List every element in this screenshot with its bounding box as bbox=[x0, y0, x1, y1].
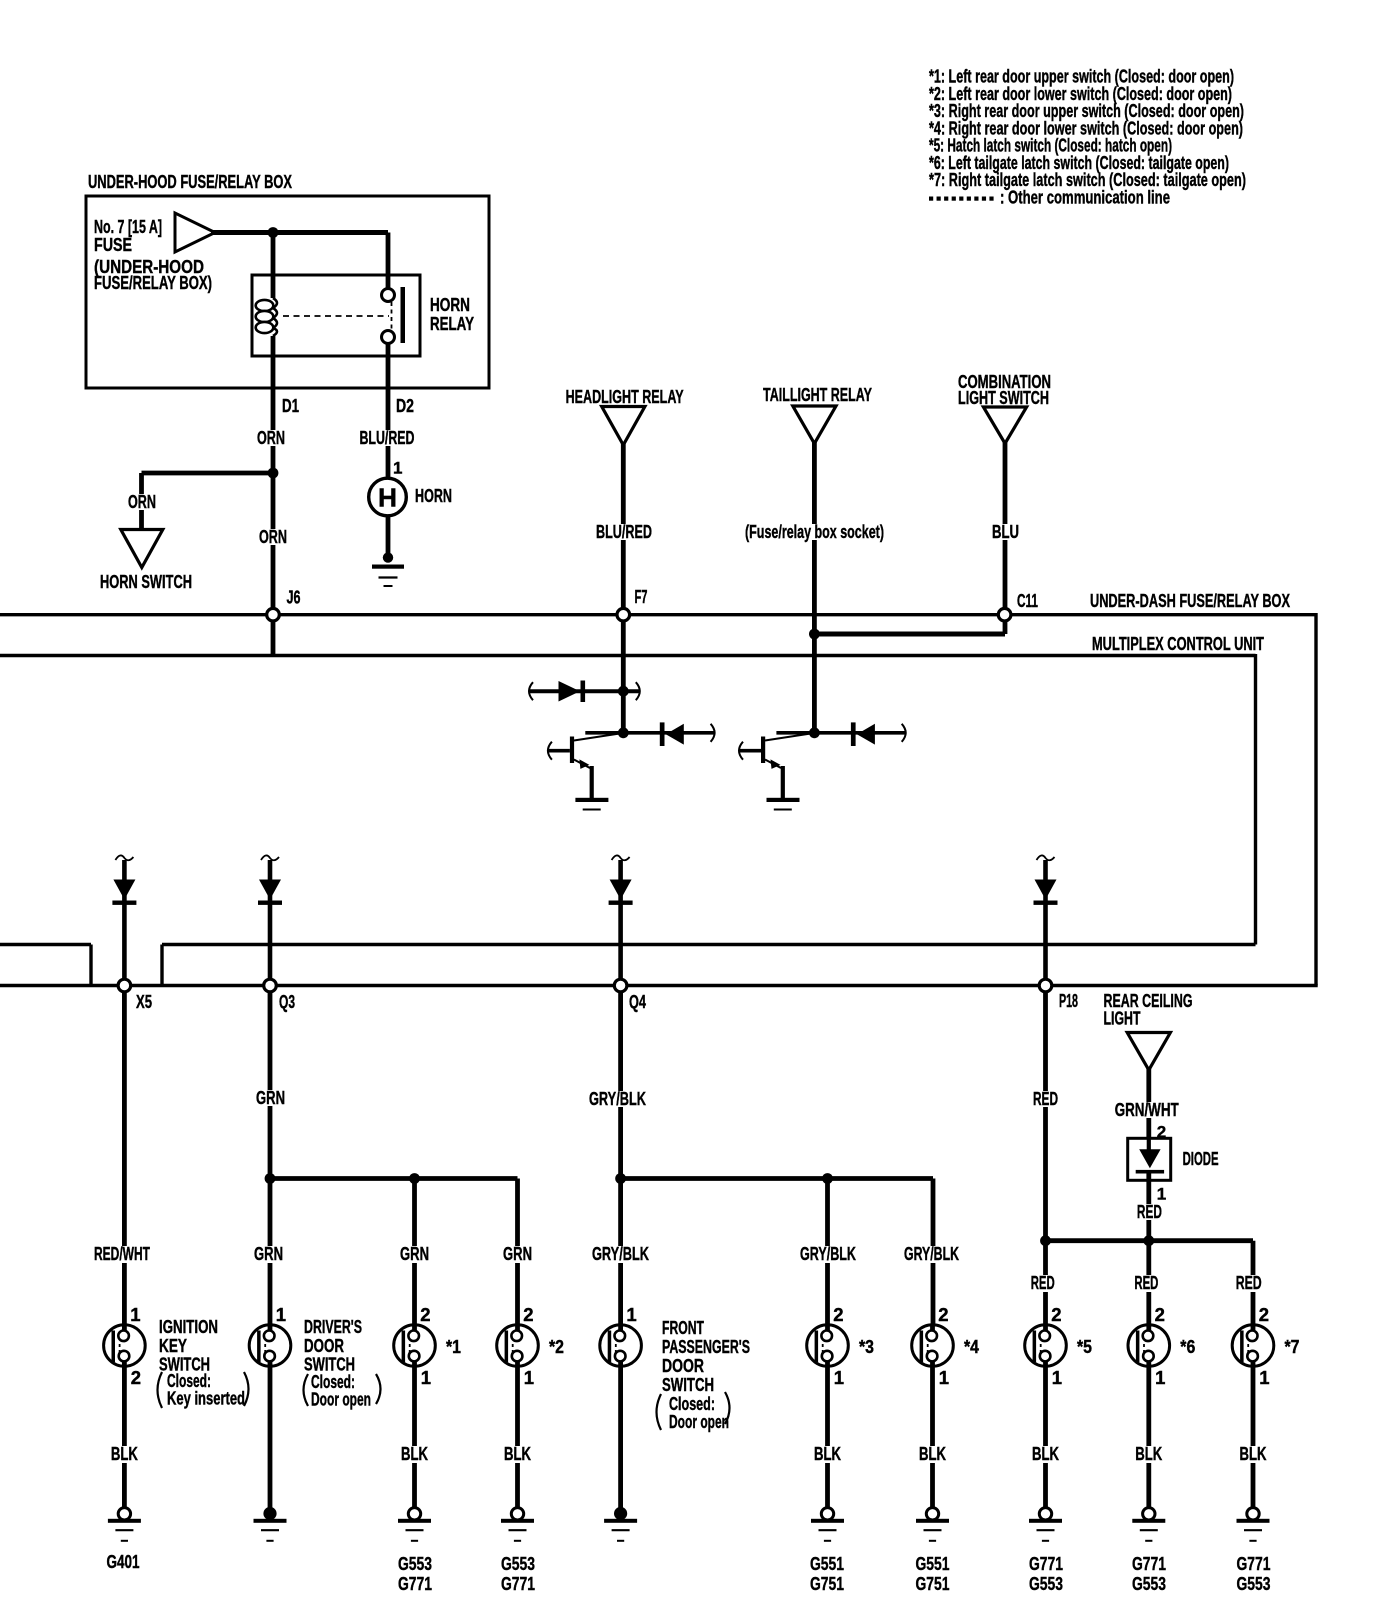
svg-text:GRY/BLK: GRY/BLK bbox=[800, 1243, 856, 1264]
svg-text:*4: *4 bbox=[964, 1336, 980, 1357]
svg-text:*7: *7 bbox=[1285, 1336, 1300, 1357]
svg-text:1: 1 bbox=[1052, 1367, 1062, 1388]
svg-text:LIGHT: LIGHT bbox=[1104, 1008, 1141, 1029]
svg-text:Q3: Q3 bbox=[279, 991, 295, 1012]
svg-text:P18: P18 bbox=[1059, 990, 1078, 1011]
svg-text:RED: RED bbox=[1033, 1088, 1058, 1109]
svg-text:HORN SWITCH: HORN SWITCH bbox=[100, 571, 192, 592]
svg-text:G771: G771 bbox=[501, 1573, 535, 1594]
svg-text:D1: D1 bbox=[282, 395, 299, 416]
svg-text:G771: G771 bbox=[1029, 1553, 1063, 1574]
svg-text:G551: G551 bbox=[916, 1553, 950, 1574]
svg-text:*2: *2 bbox=[549, 1336, 564, 1357]
svg-text:1: 1 bbox=[939, 1367, 949, 1388]
svg-text:HORN: HORN bbox=[415, 485, 452, 506]
svg-text:FUSE: FUSE bbox=[94, 234, 132, 255]
svg-text:ORN: ORN bbox=[257, 427, 285, 448]
svg-text:G401: G401 bbox=[107, 1551, 140, 1572]
svg-text:RED: RED bbox=[1134, 1272, 1158, 1293]
svg-text:MULTIPLEX CONTROL UNIT: MULTIPLEX CONTROL UNIT bbox=[1092, 633, 1264, 654]
svg-text:Q4: Q4 bbox=[629, 991, 646, 1012]
svg-text:RED: RED bbox=[1236, 1272, 1262, 1293]
svg-text:G553: G553 bbox=[1029, 1573, 1063, 1594]
svg-text:UNDER-HOOD FUSE/RELAY BOX: UNDER-HOOD FUSE/RELAY BOX bbox=[88, 171, 292, 192]
svg-text:RELAY: RELAY bbox=[430, 313, 474, 334]
svg-text:DIODE: DIODE bbox=[1183, 1148, 1219, 1169]
svg-text:2: 2 bbox=[523, 1304, 533, 1325]
svg-text:C11: C11 bbox=[1017, 590, 1038, 611]
svg-text:GRN: GRN bbox=[254, 1243, 283, 1264]
svg-text:FUSE/RELAY BOX): FUSE/RELAY BOX) bbox=[94, 272, 212, 293]
svg-text:BLU: BLU bbox=[992, 521, 1019, 542]
svg-text:Key inserted: Key inserted bbox=[167, 1388, 245, 1409]
svg-text:G751: G751 bbox=[916, 1573, 950, 1594]
svg-text:RED: RED bbox=[1031, 1272, 1055, 1293]
svg-text:Door open: Door open bbox=[669, 1411, 729, 1432]
svg-text:(Fuse/relay box socket): (Fuse/relay box socket) bbox=[745, 521, 884, 542]
svg-text:UNDER-DASH FUSE/RELAY BOX: UNDER-DASH FUSE/RELAY BOX bbox=[1090, 590, 1290, 611]
svg-text:1: 1 bbox=[393, 459, 402, 478]
svg-text:X5: X5 bbox=[136, 991, 152, 1012]
svg-text:BLK: BLK bbox=[814, 1443, 841, 1464]
svg-text:GRY/BLK: GRY/BLK bbox=[904, 1243, 959, 1264]
svg-text:G553: G553 bbox=[1132, 1573, 1166, 1594]
svg-text:G771: G771 bbox=[398, 1573, 432, 1594]
svg-text:1: 1 bbox=[626, 1304, 636, 1325]
svg-text:RED/WHT: RED/WHT bbox=[94, 1243, 150, 1264]
svg-text:FRONT: FRONT bbox=[662, 1317, 704, 1338]
svg-text:ORN: ORN bbox=[128, 491, 156, 512]
svg-text:ORN: ORN bbox=[259, 526, 287, 547]
svg-text:IGNITION: IGNITION bbox=[159, 1316, 218, 1337]
svg-text:GRY/BLK: GRY/BLK bbox=[589, 1088, 646, 1109]
svg-text:1: 1 bbox=[524, 1367, 534, 1388]
svg-text:*1: *1 bbox=[446, 1336, 461, 1357]
svg-text:BLK: BLK bbox=[401, 1443, 428, 1464]
svg-text:H: H bbox=[378, 483, 397, 513]
svg-text:GRN/WHT: GRN/WHT bbox=[1115, 1099, 1180, 1120]
svg-text:BLU/RED: BLU/RED bbox=[596, 521, 652, 542]
svg-text:G553: G553 bbox=[501, 1553, 535, 1574]
svg-text:GRN: GRN bbox=[400, 1243, 429, 1264]
svg-text:HEADLIGHT RELAY: HEADLIGHT RELAY bbox=[566, 386, 684, 407]
svg-text:DRIVER'S: DRIVER'S bbox=[304, 1316, 362, 1337]
svg-text:2: 2 bbox=[1157, 1123, 1166, 1142]
svg-text:2: 2 bbox=[1259, 1304, 1269, 1325]
svg-text:G771: G771 bbox=[1237, 1553, 1271, 1574]
svg-text:BLU/RED: BLU/RED bbox=[360, 427, 415, 448]
svg-text:*5: *5 bbox=[1077, 1336, 1092, 1357]
svg-text:J6: J6 bbox=[287, 587, 301, 608]
svg-text:2: 2 bbox=[1155, 1304, 1165, 1325]
svg-text:BLK: BLK bbox=[1240, 1443, 1267, 1464]
svg-text:TAILLIGHT RELAY: TAILLIGHT RELAY bbox=[763, 384, 872, 405]
svg-text:G751: G751 bbox=[810, 1573, 844, 1594]
svg-text:Door open: Door open bbox=[311, 1389, 371, 1410]
svg-text:BLK: BLK bbox=[1135, 1443, 1162, 1464]
svg-text:GRN: GRN bbox=[503, 1243, 532, 1264]
svg-text:LIGHT SWITCH: LIGHT SWITCH bbox=[958, 387, 1049, 408]
svg-text:*3: *3 bbox=[859, 1336, 874, 1357]
svg-text:2: 2 bbox=[420, 1304, 430, 1325]
svg-text:G551: G551 bbox=[810, 1553, 844, 1574]
svg-text:BLK: BLK bbox=[504, 1443, 531, 1464]
svg-text:BLK: BLK bbox=[1032, 1443, 1059, 1464]
svg-text:: Other communication line: : Other communication line bbox=[1000, 188, 1170, 208]
svg-text:F7: F7 bbox=[635, 586, 648, 607]
svg-text:PASSENGER'S: PASSENGER'S bbox=[662, 1336, 750, 1357]
svg-text:GRN: GRN bbox=[256, 1087, 285, 1108]
svg-text:2: 2 bbox=[1051, 1304, 1061, 1325]
svg-text:G553: G553 bbox=[398, 1553, 432, 1574]
svg-text:2: 2 bbox=[938, 1304, 948, 1325]
svg-text:G771: G771 bbox=[1132, 1553, 1166, 1574]
svg-text:BLK: BLK bbox=[111, 1443, 138, 1464]
svg-text:2: 2 bbox=[833, 1304, 843, 1325]
svg-text:1: 1 bbox=[421, 1367, 431, 1388]
svg-text:1: 1 bbox=[1259, 1367, 1269, 1388]
svg-text:1: 1 bbox=[130, 1304, 140, 1325]
svg-text:RED: RED bbox=[1137, 1201, 1162, 1222]
svg-text:1: 1 bbox=[276, 1304, 286, 1325]
svg-text:G553: G553 bbox=[1237, 1573, 1271, 1594]
svg-text:HORN: HORN bbox=[430, 294, 470, 315]
svg-text:SWITCH: SWITCH bbox=[662, 1374, 714, 1395]
svg-text:DOOR: DOOR bbox=[662, 1355, 704, 1376]
svg-text:BLK: BLK bbox=[919, 1443, 946, 1464]
svg-text:1: 1 bbox=[1155, 1367, 1165, 1388]
svg-text:*6: *6 bbox=[1180, 1336, 1195, 1357]
svg-text:GRY/BLK: GRY/BLK bbox=[592, 1243, 649, 1264]
svg-text:2: 2 bbox=[131, 1367, 141, 1388]
svg-text:1: 1 bbox=[834, 1367, 844, 1388]
svg-text:D2: D2 bbox=[396, 395, 414, 416]
